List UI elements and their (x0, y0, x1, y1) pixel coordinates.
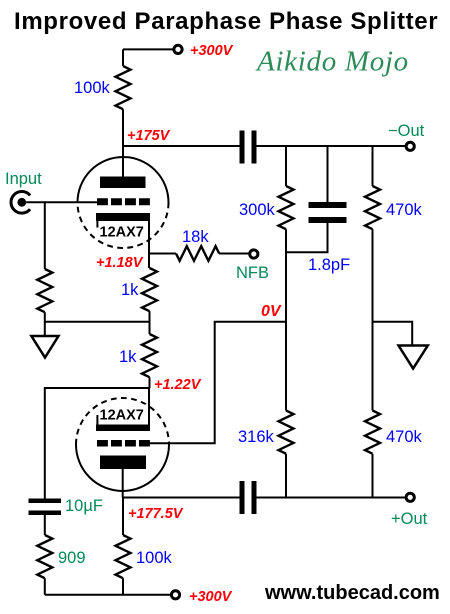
terminal NFB (250, 250, 258, 258)
tube V2 12AX7 envelope (dashed top half) (76, 398, 169, 444)
resistor 1k (lower) (142, 334, 157, 377)
tube V2 cathode bar (96, 425, 150, 432)
svg-text:+Out: +Out (391, 510, 428, 528)
svg-text:909: 909 (58, 549, 86, 567)
wire +1.22V node left and down to 10uF (45, 388, 150, 499)
tube V1 grid (dashed bar) (97, 198, 150, 205)
tube V1 plate (100, 177, 146, 189)
capacitor C1 (coupling, top) (240, 131, 245, 164)
svg-text:10µF: 10µF (65, 497, 103, 515)
terminal +Out (406, 493, 414, 501)
svg-text:−Out: −Out (388, 122, 425, 140)
wire input to V1 grid (26, 201, 97, 203)
resistor R1 100k (top) (116, 66, 131, 109)
ground (left) (31, 336, 58, 358)
wire V2 plate lead down (122, 469, 124, 498)
wire 100k bottom to rail (122, 578, 124, 595)
wire bottom rail to terminal (45, 594, 172, 596)
wire V2 plate node to C2 (123, 497, 240, 499)
svg-text:www.tubecad.com: www.tubecad.com (264, 582, 440, 604)
resistor 1k (upper) (142, 268, 157, 311)
wire cathode tee to 18k (149, 253, 176, 255)
wire input node down to grid resistor (44, 202, 46, 269)
wire grid leak bottom to ground (44, 312, 46, 336)
wire 470k top lead (372, 146, 374, 186)
tube V2 grid (dashed bar) (97, 440, 150, 447)
ground (right) (399, 346, 428, 369)
svg-text:+1.18V: +1.18V (96, 255, 144, 271)
svg-text:100k: 100k (136, 549, 173, 567)
resistor 316k (279, 411, 294, 454)
tube V1 envelope (dashed bottom half) (78, 203, 169, 249)
wire +175V node to C1 (123, 145, 240, 147)
svg-text:+300V: +300V (190, 43, 234, 59)
svg-text:316k: 316k (238, 428, 275, 446)
resistor (input grid leak) (37, 269, 52, 312)
svg-text:+175V: +175V (127, 128, 171, 144)
terminal +300V (bottom) (171, 591, 179, 599)
svg-text:12AX7: 12AX7 (100, 408, 144, 424)
white box behind tube V1 label (100, 223, 148, 239)
svg-text:12AX7: 12AX7 (100, 225, 144, 241)
svg-text:18k: 18k (182, 228, 209, 246)
wire 1k bottom to +1.22V node (149, 377, 151, 388)
wire top lead into R1 (122, 49, 124, 66)
wire 909 bottom to rail (44, 578, 46, 595)
resistor 470k (upper) (365, 186, 380, 229)
capacitor 1.8pF (309, 202, 347, 208)
capacitor 10uF (29, 499, 62, 504)
wire R1 bottom to tube V1 plate (122, 109, 124, 176)
tube V2 plate (100, 456, 146, 470)
resistor 100k (bottom) (116, 535, 131, 578)
resistor 300k (279, 186, 294, 229)
svg-text:0V: 0V (261, 303, 282, 320)
wire top node to +300V terminal (123, 48, 174, 50)
tube V1 cathode end stubs (96, 221, 98, 228)
resistor 18k (horizontal) (176, 246, 219, 261)
svg-text:1k: 1k (119, 348, 137, 366)
wire 0V node to divider (148, 322, 286, 444)
wire 10uF to 909 (44, 515, 46, 535)
svg-text:470k: 470k (386, 428, 423, 446)
svg-text:+1.22V: +1.22V (154, 377, 202, 393)
wire 18k to NFB terminal (219, 253, 250, 255)
wire 1.8pF bottom to 300k node (286, 223, 328, 252)
resistor 909 (37, 535, 52, 578)
wire V2 cathode lead up (148, 388, 150, 425)
svg-text:1.8pF: 1.8pF (308, 256, 350, 274)
tube V2 cathode end stubs (96, 415, 98, 425)
white box behind tube V2 label (100, 405, 148, 421)
wire 1.8pF top lead (327, 146, 329, 202)
svg-text:+177.5V: +177.5V (128, 506, 184, 522)
terminal -Out (406, 142, 414, 150)
tube V1 cathode bar (96, 213, 150, 221)
svg-text:Input: Input (5, 170, 42, 188)
wire C2 to +Out terminal (257, 497, 407, 499)
svg-text:Aikido Mojo: Aikido Mojo (255, 46, 409, 78)
capacitor C2 (coupling, bottom) (240, 481, 245, 514)
resistor 470k (lower) (365, 411, 380, 454)
tube V1 12AX7 envelope (solid top half) (78, 157, 169, 203)
wire 316k bottom to +Out rail (285, 454, 287, 498)
wire V1 cathode lead down (148, 221, 150, 268)
svg-text:100k: 100k (74, 79, 111, 97)
svg-text:NFB: NFB (236, 264, 269, 282)
input jack (11, 191, 30, 213)
terminal +300V (top) (174, 45, 182, 53)
wire between 1k resistors (149, 311, 151, 334)
wire 300k bottom down to 316k top (285, 229, 287, 410)
wire plate node down to 100k (122, 498, 124, 536)
tube V2 envelope (solid bottom half) (76, 445, 169, 492)
svg-text:1k: 1k (121, 281, 139, 299)
svg-text:300k: 300k (239, 201, 276, 219)
wire right ground branch (373, 322, 413, 346)
wire C1 to -Out terminal (257, 145, 407, 147)
svg-text:+300V: +300V (189, 589, 233, 605)
wire 0V tap to 1k junction (45, 321, 150, 323)
svg-text:Improved Paraphase Phase Split: Improved Paraphase Phase Splitter (14, 8, 438, 35)
wire 300k top lead (285, 146, 287, 186)
svg-text:470k: 470k (386, 201, 423, 219)
wire 470k bottom to +Out rail (372, 454, 374, 498)
wire 470k bottom down to lower 470k (372, 229, 374, 410)
